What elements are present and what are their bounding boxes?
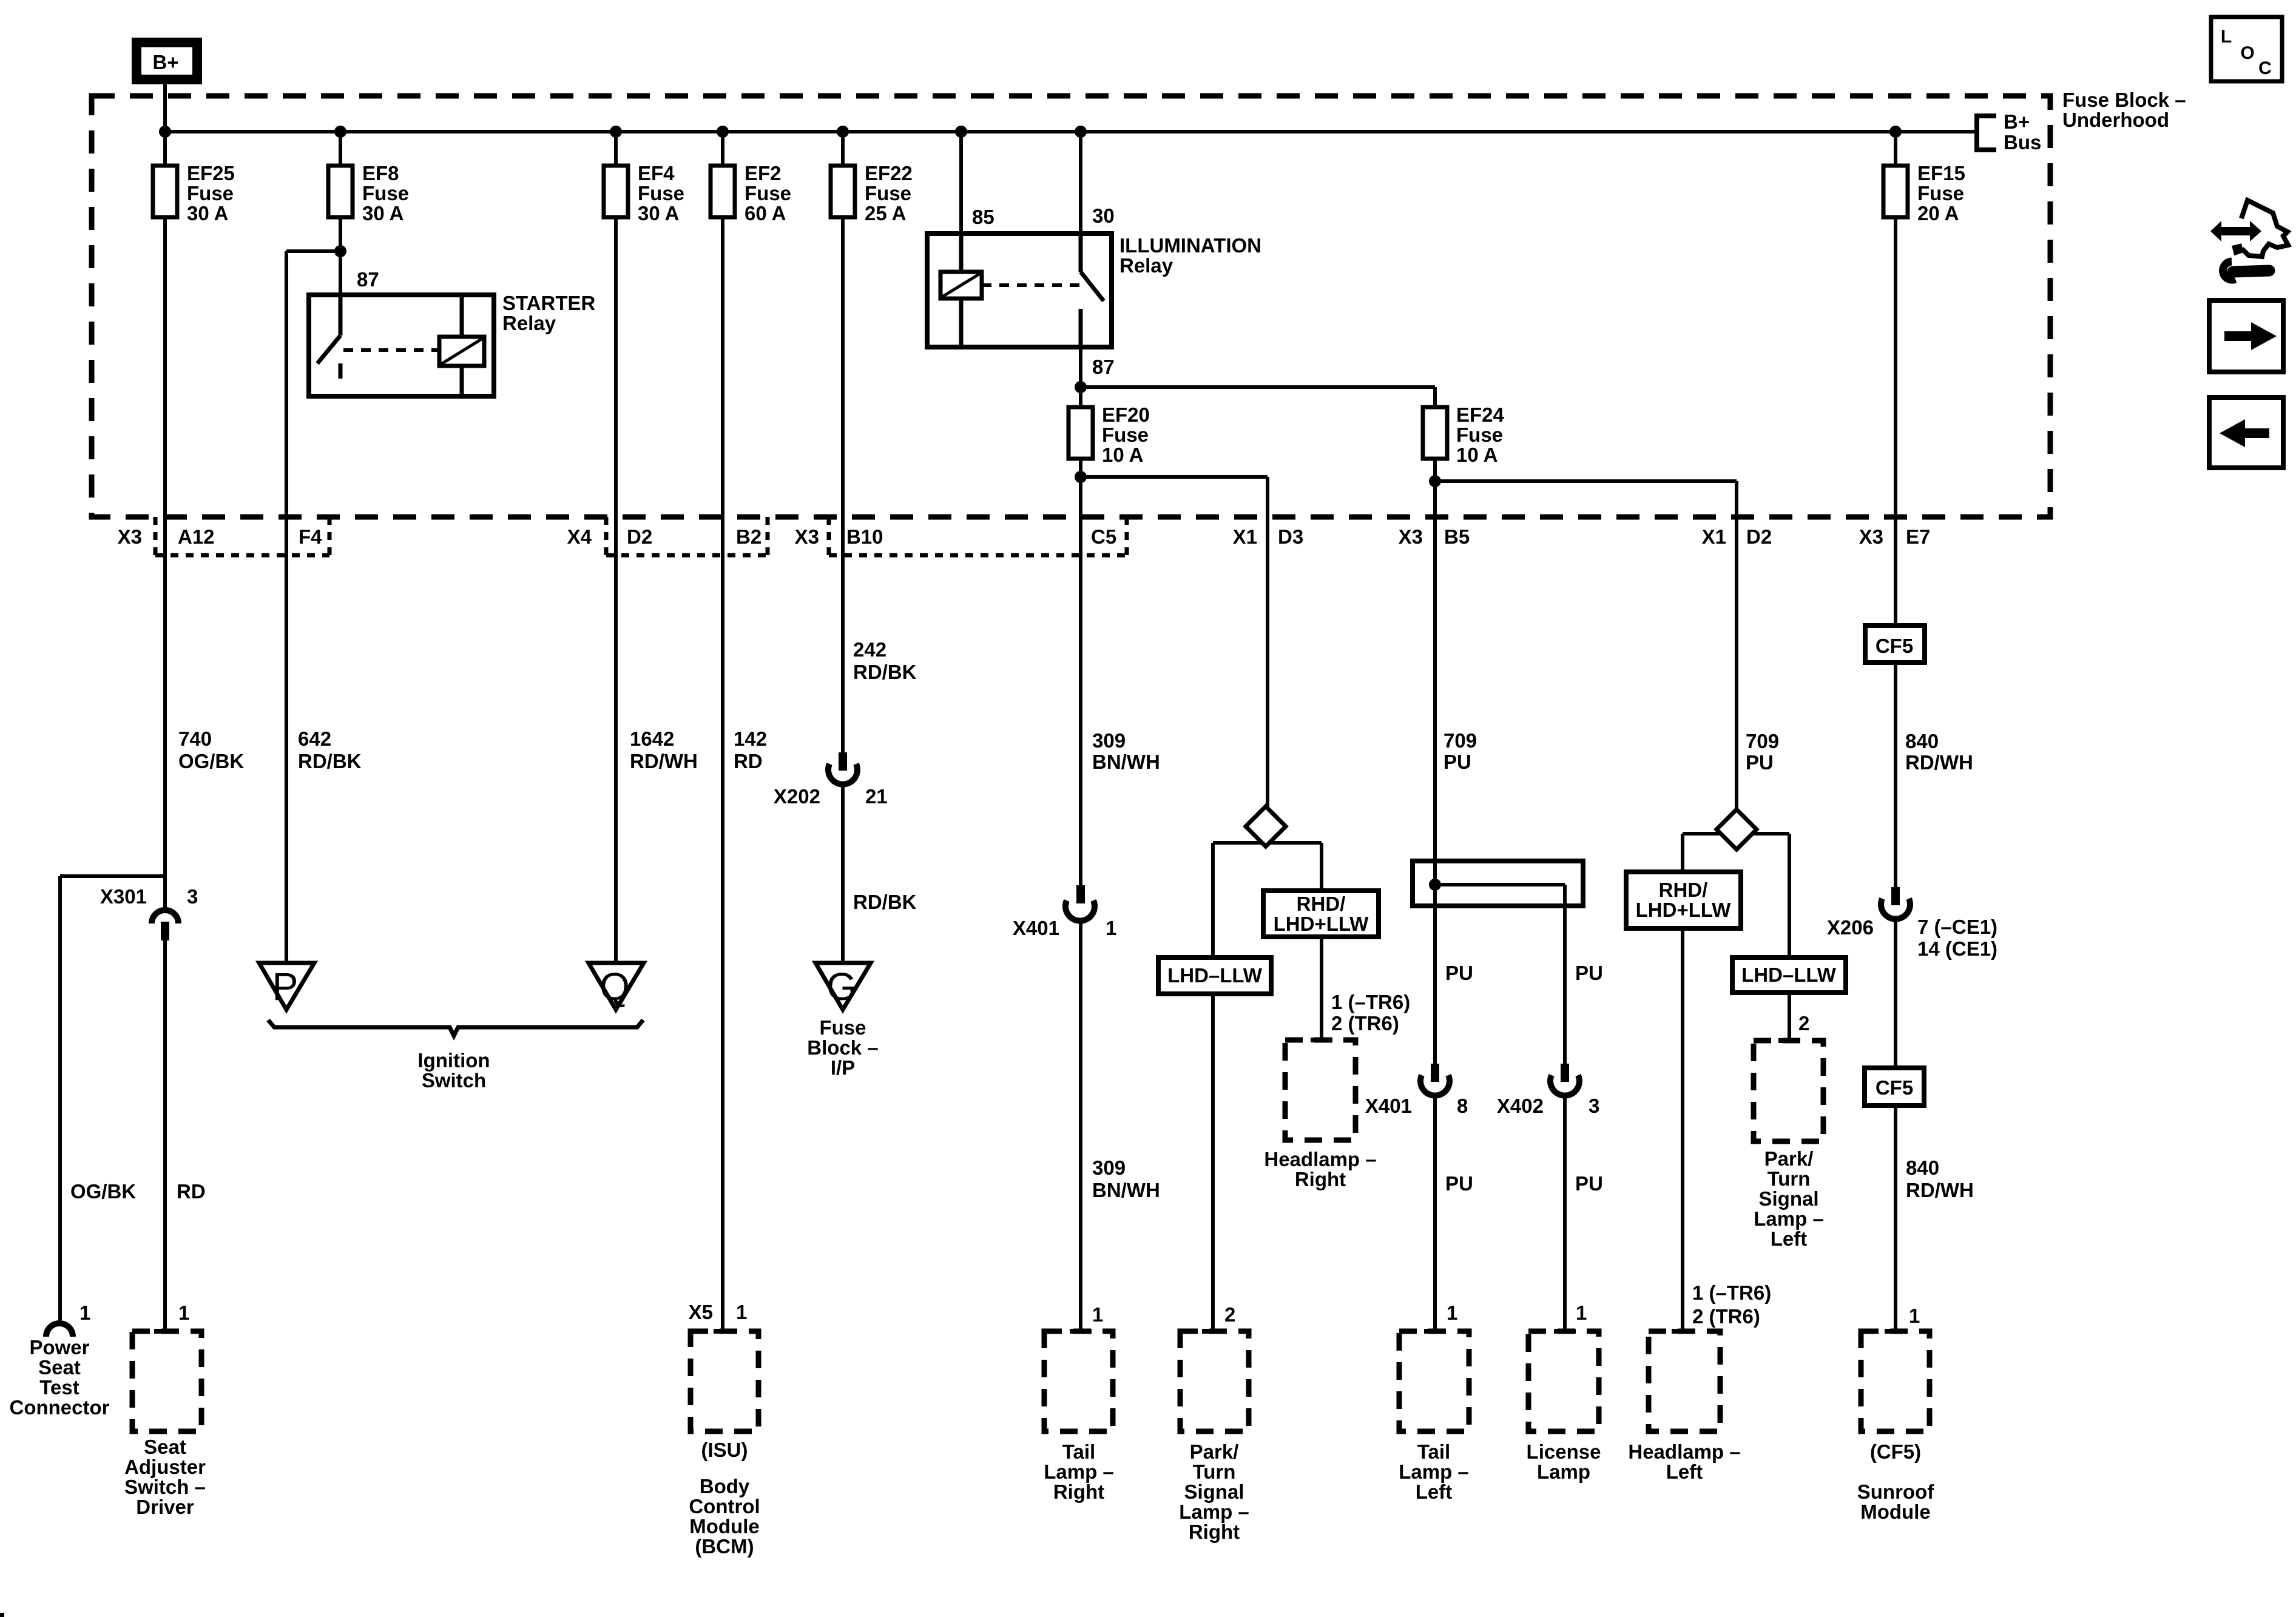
svg-text:709: 709	[1443, 729, 1477, 752]
svg-text:Switch –: Switch –	[124, 1476, 206, 1498]
svg-text:X202: X202	[774, 785, 820, 808]
svg-text:Headlamp –: Headlamp –	[1628, 1440, 1740, 1463]
battery feed B+ terminal box	[137, 42, 197, 79]
svg-text:Test: Test	[39, 1376, 79, 1399]
wire CF5 to X206	[1894, 663, 1897, 887]
label Fuse Block - I/P	[807, 1016, 878, 1079]
svg-text:Lamp –: Lamp –	[1399, 1460, 1469, 1483]
svg-text:Switch: Switch	[422, 1069, 486, 1092]
svg-text:20 A: 20 A	[1917, 202, 1959, 224]
svg-text:CF5: CF5	[1876, 1076, 1913, 1099]
node bus junction relay 30	[1075, 126, 1087, 138]
connector label row X3 A12	[118, 525, 215, 548]
wire headlamp right feed	[1320, 937, 1323, 1040]
wire EF25 column to X301	[163, 217, 167, 909]
svg-text:RHD/: RHD/	[1659, 879, 1708, 901]
svg-text:85: 85	[972, 206, 994, 228]
svg-text:EF2: EF2	[745, 162, 782, 184]
terminal triangle P	[259, 963, 314, 1010]
wire EF24 bottom	[1433, 459, 1437, 481]
svg-text:Relay: Relay	[502, 312, 556, 334]
svg-text:B+: B+	[2004, 110, 2030, 133]
svg-text:RD/BK: RD/BK	[853, 661, 917, 683]
svg-text:Connector: Connector	[10, 1396, 110, 1419]
connector group ticks D2-B2	[606, 517, 768, 555]
svg-text:1642: 1642	[630, 727, 674, 750]
svg-text:BN/WH: BN/WH	[1092, 1179, 1160, 1201]
wire EF8 to starter relay	[339, 217, 342, 295]
svg-text:740: 740	[178, 727, 212, 750]
svg-text:Tail: Tail	[1417, 1440, 1450, 1463]
connector group ticks A12-F4	[155, 517, 329, 555]
svg-text:3: 3	[187, 885, 198, 908]
wire tail lamp right feed	[1079, 920, 1082, 1331]
svg-text:10 A: 10 A	[1456, 444, 1497, 466]
svg-text:Q: Q	[599, 965, 630, 1008]
LOC reference box	[2211, 17, 2282, 81]
svg-text:PU: PU	[1443, 751, 1471, 773]
svg-text:X301: X301	[100, 885, 147, 908]
wire label 840 RD/WH lower	[1906, 1156, 1974, 1201]
wire label 840 RD/WH upper	[1905, 730, 1973, 774]
wire EF24 branch to D2 column	[1435, 481, 1737, 811]
svg-text:309: 309	[1092, 729, 1126, 752]
component box Tail Lamp Left	[1399, 1331, 1469, 1503]
wire label 242 RD/BK	[853, 638, 917, 683]
connector label row X3 E7	[1859, 525, 1931, 548]
fuse EF20 10A	[1069, 403, 1150, 466]
svg-text:242: 242	[853, 638, 886, 661]
svg-text:709: 709	[1746, 730, 1779, 752]
node EF24 output junction	[1429, 475, 1441, 487]
terminal triangle Q	[589, 963, 644, 1010]
connector group ticks B10-C5	[829, 517, 1127, 555]
svg-text:Left: Left	[1771, 1227, 1808, 1250]
icon arrow next box	[2209, 300, 2283, 372]
svg-text:X401: X401	[1365, 1095, 1412, 1117]
svg-text:PU: PU	[1575, 1172, 1603, 1195]
component box Park/Turn Signal Lamp Right	[1179, 1331, 1249, 1543]
svg-text:Lamp –: Lamp –	[1754, 1207, 1824, 1230]
svg-text:Seat: Seat	[38, 1356, 81, 1379]
svg-text:G: G	[826, 965, 857, 1008]
svg-text:1: 1	[1106, 917, 1116, 939]
node 87 output junction	[1075, 381, 1087, 393]
svg-text:1 (–TR6): 1 (–TR6)	[1331, 991, 1410, 1013]
svg-text:PU: PU	[1445, 962, 1473, 984]
svg-text:Right: Right	[1053, 1480, 1104, 1503]
svg-text:1: 1	[1092, 1303, 1103, 1326]
svg-text:2: 2	[1798, 1012, 1809, 1035]
fuse block underhood dashed boundary	[92, 96, 2050, 517]
svg-text:1: 1	[736, 1301, 747, 1323]
wire relay 30 feed	[1079, 132, 1082, 234]
svg-text:Bus: Bus	[2004, 131, 2041, 154]
svg-text:Fuse: Fuse	[1102, 424, 1149, 446]
wire EF15 column to CF5	[1894, 217, 1897, 626]
svg-text:Driver: Driver	[136, 1496, 194, 1518]
svg-text:EF22: EF22	[865, 162, 913, 184]
svg-text:Fuse: Fuse	[1917, 182, 1964, 204]
svg-text:D3: D3	[1278, 525, 1303, 548]
svg-text:309: 309	[1092, 1156, 1126, 1179]
svg-text:2: 2	[1224, 1303, 1235, 1326]
svg-text:X5: X5	[689, 1301, 713, 1323]
svg-text:3: 3	[1589, 1095, 1599, 1117]
svg-text:Left: Left	[1666, 1460, 1703, 1483]
svg-text:10 A: 10 A	[1102, 444, 1143, 466]
wire 87 output to EF20	[1079, 387, 1082, 407]
component box Headlamp Right	[1264, 1040, 1376, 1190]
svg-text:8: 8	[1457, 1095, 1468, 1117]
svg-text:EF4: EF4	[638, 162, 675, 184]
wire label 740 OG/BK	[178, 727, 244, 772]
wire 87 output to EF24	[1081, 387, 1435, 407]
svg-text:LHD–LLW: LHD–LLW	[1741, 964, 1837, 986]
svg-text:25 A: 25 A	[865, 202, 906, 224]
connector X206 pins 7/14 inline	[1827, 887, 1997, 960]
svg-text:840: 840	[1905, 730, 1939, 752]
svg-text:EF8: EF8	[362, 162, 399, 184]
wire EF4 column upper	[614, 132, 618, 166]
svg-text:87: 87	[1092, 356, 1115, 378]
wire sunroof module feed	[1894, 1106, 1897, 1331]
svg-text:RD: RD	[177, 1180, 206, 1203]
svg-text:2 (TR6): 2 (TR6)	[1331, 1012, 1399, 1035]
svg-text:B10: B10	[846, 525, 883, 548]
splice block on B5 column	[1413, 861, 1583, 1064]
wire EF2 column upper	[721, 132, 724, 166]
splice diamond left circuit	[1683, 809, 1789, 849]
svg-text:RD/WH: RD/WH	[1905, 751, 1973, 774]
svg-text:Sunroof: Sunroof	[1857, 1480, 1934, 1503]
svg-text:RD/WH: RD/WH	[1906, 1179, 1974, 1201]
svg-text:(BCM): (BCM)	[695, 1535, 754, 1558]
svg-text:LHD–LLW: LHD–LLW	[1167, 964, 1263, 987]
wire license lamp feed	[1563, 1095, 1567, 1331]
wire relay 85 coil feed	[959, 132, 963, 234]
svg-text:Body: Body	[700, 1475, 750, 1497]
option box LHD-LLW left circuit	[1732, 834, 1846, 993]
svg-text:B2: B2	[736, 525, 761, 548]
svg-text:RHD/: RHD/	[1297, 893, 1346, 915]
relay STARTER Relay	[309, 268, 596, 396]
wire EF8 column upper	[339, 132, 342, 166]
ignition switch brace	[268, 1020, 643, 1036]
wire EF20 column down C5	[1079, 477, 1082, 894]
svg-text:1: 1	[178, 1301, 189, 1324]
svg-text:X4: X4	[567, 525, 592, 548]
node bus junction EF25	[159, 126, 171, 138]
svg-text:P: P	[272, 965, 299, 1008]
corner artifact mark	[0, 1613, 4, 1617]
svg-text:F4: F4	[299, 525, 322, 548]
connector label row X3 B10	[795, 525, 883, 548]
wire relay 87 output	[1079, 347, 1082, 387]
icon vehicle navigation	[2210, 200, 2288, 280]
connector label row X1 D2	[1702, 525, 1772, 548]
fuse EF8 30A	[328, 162, 409, 224]
svg-text:E7: E7	[1906, 525, 1930, 548]
svg-text:(CF5): (CF5)	[1870, 1440, 1921, 1463]
node bus junction EF2	[717, 126, 729, 138]
svg-text:21: 21	[865, 785, 888, 808]
splice diamond right circuit	[1213, 806, 1322, 846]
svg-text:OG/BK: OG/BK	[70, 1180, 136, 1203]
relay ILLUMINATION Relay	[927, 234, 1261, 347]
wire EF2 column to BCM	[721, 217, 724, 1331]
wire headlamp left feed	[1681, 928, 1684, 1331]
wire EF25 column upper	[163, 132, 167, 166]
svg-text:Park/: Park/	[1764, 1147, 1814, 1170]
wire label 309 BN/WH lower	[1092, 1156, 1160, 1201]
svg-text:840: 840	[1906, 1156, 1939, 1179]
connector X202 pin 21 inline	[774, 752, 888, 808]
wire EF24 column down B5	[1433, 481, 1437, 1064]
component box Sunroof Module	[1857, 1331, 1934, 1523]
svg-text:X402: X402	[1497, 1095, 1544, 1117]
icon arrow previous box	[2209, 397, 2283, 468]
svg-text:RD: RD	[734, 750, 763, 772]
svg-text:PU: PU	[1575, 962, 1603, 984]
svg-text:X206: X206	[1827, 916, 1874, 939]
connector X301 pin 3 inline	[100, 885, 198, 940]
svg-text:Fuse: Fuse	[865, 182, 911, 204]
svg-text:Headlamp –: Headlamp –	[1264, 1148, 1376, 1170]
wire EF15 column upper	[1894, 132, 1897, 166]
fuse EF15 20A	[1883, 162, 1965, 224]
svg-text:Seat: Seat	[144, 1436, 186, 1458]
component box License Lamp	[1527, 1331, 1601, 1483]
svg-text:Left: Left	[1416, 1480, 1453, 1503]
svg-text:Fuse Block –: Fuse Block –	[2062, 89, 2186, 111]
svg-text:X3: X3	[1859, 525, 1883, 548]
svg-text:Control: Control	[689, 1495, 760, 1517]
wire EF22 column upper	[841, 132, 845, 166]
svg-text:642: 642	[298, 727, 331, 750]
svg-text:Turn: Turn	[1768, 1167, 1811, 1190]
svg-text:A12: A12	[178, 525, 215, 548]
svg-text:Relay: Relay	[1119, 254, 1173, 277]
svg-text:ILLUMINATION: ILLUMINATION	[1119, 234, 1261, 257]
svg-text:X3: X3	[795, 525, 819, 548]
wire label 142 RD	[734, 727, 767, 772]
pin X5 1 BCM	[689, 1301, 748, 1323]
svg-text:EF24: EF24	[1456, 403, 1505, 426]
wire park turn right feed	[1211, 994, 1215, 1331]
B+ Bus bracket terminal	[1977, 110, 2041, 154]
svg-text:Lamp –: Lamp –	[1179, 1501, 1249, 1523]
svg-text:Fuse: Fuse	[638, 182, 684, 204]
node EF20 output junction	[1075, 471, 1087, 483]
wire branch to LHD-LLW right circuit	[1211, 843, 1215, 957]
svg-text:Underhood: Underhood	[2062, 109, 2169, 131]
wire park turn left feed	[1788, 993, 1791, 1041]
option box RHD/LHD+LLW right circuit	[1263, 843, 1379, 937]
fuse EF22 25A	[831, 162, 913, 224]
svg-text:Module: Module	[689, 1515, 759, 1538]
svg-text:Fuse: Fuse	[362, 182, 409, 204]
wire EF22 column to fuse block IP	[841, 783, 845, 963]
svg-text:OG/BK: OG/BK	[178, 750, 244, 772]
connector label row X1 D3	[1233, 525, 1304, 548]
svg-text:CF5: CF5	[1876, 635, 1913, 657]
wire EF22 column to X202	[841, 217, 845, 752]
svg-text:C: C	[2258, 58, 2272, 78]
pin label 1 (-TR6) 2 (TR6) left	[1692, 1281, 1771, 1328]
connector Power Seat Test Connector end	[10, 1301, 110, 1419]
svg-text:License: License	[1527, 1440, 1601, 1463]
svg-text:EF20: EF20	[1102, 403, 1150, 426]
svg-text:87: 87	[357, 268, 379, 291]
svg-text:1: 1	[1576, 1301, 1587, 1324]
svg-text:B+: B+	[152, 51, 178, 73]
terminal triangle G	[815, 963, 871, 1010]
svg-text:X401: X401	[1013, 917, 1059, 939]
wire EF20 branch to D3 column	[1081, 477, 1268, 809]
svg-text:B5: B5	[1444, 525, 1470, 548]
svg-text:Lamp: Lamp	[1537, 1460, 1590, 1483]
svg-text:30 A: 30 A	[187, 202, 228, 224]
label Ignition Switch	[417, 1049, 490, 1092]
wire label 709 PU left	[1443, 729, 1477, 773]
svg-text:2 (TR6): 2 (TR6)	[1692, 1305, 1760, 1328]
feed fuse CF5 lower box	[1865, 1068, 1924, 1106]
svg-text:D2: D2	[627, 525, 652, 548]
node bus junction EF22	[837, 126, 849, 138]
svg-text:Fuse: Fuse	[819, 1016, 866, 1039]
svg-text:X1: X1	[1233, 525, 1257, 548]
svg-text:RD/BK: RD/BK	[853, 891, 917, 913]
svg-text:RD/BK: RD/BK	[298, 750, 362, 772]
svg-text:1: 1	[1447, 1301, 1457, 1324]
connector X401 pin 1 inline	[1013, 885, 1116, 939]
svg-text:Ignition: Ignition	[417, 1049, 490, 1072]
connector X401 pin 8 inline	[1365, 1064, 1468, 1117]
component box Body Control Module	[689, 1331, 760, 1558]
wire branch to ignition switch P	[286, 251, 340, 963]
svg-text:Fuse: Fuse	[745, 182, 791, 204]
svg-text:PU: PU	[1746, 751, 1774, 774]
svg-text:Turn: Turn	[1193, 1460, 1236, 1483]
node bus junction EF8	[334, 126, 346, 138]
svg-text:L: L	[2221, 27, 2232, 47]
svg-text:X3: X3	[1399, 525, 1423, 548]
option box RHD/LHD+LLW left circuit	[1626, 834, 1741, 928]
wire tail lamp left feed	[1433, 1095, 1437, 1331]
option box LHD-LLW right circuit	[1158, 957, 1271, 994]
wire label 642 RD/BK	[298, 727, 362, 772]
pin label 1 (-TR6) 2 (TR6) right	[1331, 991, 1410, 1035]
svg-text:Right: Right	[1295, 1168, 1346, 1190]
wire B+ bus	[165, 130, 1977, 133]
svg-text:(ISU): (ISU)	[701, 1439, 748, 1461]
svg-text:Signal: Signal	[1184, 1480, 1244, 1503]
svg-text:STARTER: STARTER	[502, 292, 596, 314]
wire X206 to CF5 lower	[1894, 918, 1897, 1068]
svg-text:14 (CE1): 14 (CE1)	[1917, 937, 1997, 960]
svg-text:D2: D2	[1746, 525, 1772, 548]
svg-text:142: 142	[734, 727, 767, 750]
svg-text:Adjuster: Adjuster	[124, 1456, 206, 1478]
svg-text:RD/WH: RD/WH	[630, 750, 698, 772]
svg-text:X3: X3	[118, 525, 142, 548]
svg-text:1 (–TR6): 1 (–TR6)	[1692, 1281, 1771, 1304]
svg-text:7 (–CE1): 7 (–CE1)	[1917, 916, 1997, 938]
svg-text:LHD+LLW: LHD+LLW	[1636, 899, 1732, 921]
svg-text:X1: X1	[1702, 525, 1726, 548]
svg-text:30: 30	[1092, 204, 1115, 227]
svg-text:1: 1	[79, 1301, 90, 1324]
fuse EF25 30A	[153, 162, 235, 224]
component box Seat Adjuster Switch Driver	[124, 1331, 206, 1518]
svg-text:BN/WH: BN/WH	[1092, 751, 1160, 773]
svg-text:Signal: Signal	[1758, 1187, 1818, 1210]
svg-text:30 A: 30 A	[362, 202, 403, 224]
node bus junction EF4	[610, 126, 622, 138]
wire EF25 column lower	[163, 940, 167, 1331]
connector X402 pin 3 inline	[1497, 1064, 1599, 1117]
svg-text:Power: Power	[29, 1336, 89, 1359]
node bus junction relay 85	[955, 126, 967, 138]
component box Tail Lamp Right	[1044, 1331, 1114, 1503]
svg-text:PU: PU	[1445, 1172, 1473, 1195]
svg-text:Block –: Block –	[807, 1036, 878, 1059]
wire EF4 column to ignition switch Q	[614, 217, 618, 963]
svg-text:60 A: 60 A	[745, 202, 786, 224]
svg-text:Lamp –: Lamp –	[1044, 1460, 1114, 1483]
fuse EF2 60A	[711, 162, 791, 224]
wire label 709 PU right	[1746, 730, 1779, 774]
svg-text:Fuse: Fuse	[1456, 424, 1503, 446]
svg-text:EF25: EF25	[187, 162, 235, 184]
wire branch to power seat test connector	[60, 876, 165, 1320]
wire EF20 bottom	[1079, 459, 1082, 477]
wire label 309 BN/WH upper	[1092, 729, 1160, 773]
connector label row X4 D2	[567, 525, 653, 548]
svg-text:Right: Right	[1189, 1521, 1240, 1543]
feed fuse CF5 upper box	[1865, 626, 1925, 663]
component box Park/Turn Signal Lamp Left	[1754, 1041, 1824, 1250]
svg-text:EF15: EF15	[1917, 162, 1965, 184]
svg-text:Park/: Park/	[1190, 1440, 1239, 1463]
svg-text:Fuse: Fuse	[187, 182, 234, 204]
svg-text:Tail: Tail	[1062, 1440, 1095, 1463]
component box Headlamp Left	[1628, 1331, 1740, 1483]
node EF8 branch junction	[334, 245, 346, 257]
wire B+ to bus	[163, 84, 167, 132]
wire label 1642 RD/WH	[630, 727, 698, 772]
svg-text:1: 1	[1909, 1305, 1920, 1327]
connector label row X3 B5	[1399, 525, 1470, 548]
svg-text:O: O	[2240, 43, 2254, 63]
svg-text:30 A: 30 A	[638, 202, 679, 224]
svg-text:Module: Module	[1860, 1501, 1930, 1523]
svg-text:LHD+LLW: LHD+LLW	[1274, 913, 1369, 935]
fuse EF4 30A	[604, 162, 684, 224]
label Fuse Block - Underhood	[2062, 89, 2186, 131]
svg-text:C5: C5	[1091, 525, 1116, 548]
fuse EF24 10A	[1423, 403, 1505, 466]
svg-text:I/P: I/P	[831, 1056, 855, 1079]
node bus junction EF15	[1889, 126, 1902, 138]
